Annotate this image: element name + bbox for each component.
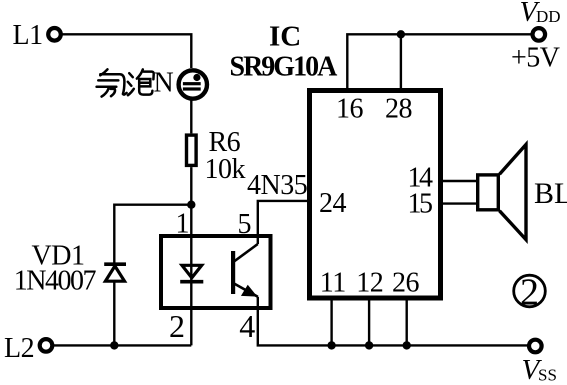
svg-text:L1: L1 [13,20,43,51]
svg-text:L2: L2 [4,333,34,364]
terminal Vdd [533,28,546,41]
svg-text:2: 2 [520,272,539,314]
svg-text:1: 1 [176,209,190,240]
wire pin 5 to IC pin 24 [258,201,308,244]
wire pin 4 to Vss rail and rail to terminal [258,297,529,346]
diode VD1 [104,264,126,281]
terminal L2 [40,339,53,352]
wire IC pin15 to speaker [441,202,479,204]
svg-text:IC: IC [269,20,301,52]
svg-text:BL: BL [534,177,567,210]
wire IC pin28 to Vdd rail [400,34,402,90]
svg-text:N: N [154,67,174,98]
svg-text:DD: DD [536,7,561,26]
LED inside optocoupler [180,265,203,281]
wire IC pin11 to Vss rail [330,298,332,345]
neon bulb N [179,70,207,98]
junction pin26 on Vss rail [403,341,411,349]
svg-text:24: 24 [319,188,347,219]
svg-text:SS: SS [538,366,557,385]
speaker BL [478,145,526,240]
svg-text:1N4007: 1N4007 [14,266,97,297]
circled figure number 2 [514,272,546,314]
svg-text:4N35: 4N35 [247,170,307,201]
IC box [310,91,441,299]
label 氖泡 (hand-drawn strokes) [97,69,154,96]
svg-text:15: 15 [408,189,433,220]
wire R6 through LED to L2 rail (pin1/pin2 path) [190,167,192,345]
junction pin11 on Vss rail [327,341,335,349]
wire node to VD1 [114,205,191,346]
wire IC pin26 to Vss rail [406,298,408,345]
optocoupler 4N35 box [161,236,271,308]
node junction R6/VD1 [187,201,195,209]
svg-text:28: 28 [385,94,412,125]
wire neon bulb to R6 [190,99,192,134]
phototransistor inside optocoupler [231,244,258,297]
svg-text:10k: 10k [205,154,246,185]
terminal L1 [48,28,61,41]
svg-text:SR9G10A: SR9G10A [230,52,339,83]
svg-text:12: 12 [356,268,383,299]
svg-text:26: 26 [392,268,420,299]
svg-text:4: 4 [239,308,255,344]
svg-text:2: 2 [169,308,185,344]
junction VD1 on L2 wire [110,341,118,349]
svg-text:+5V: +5V [511,43,560,74]
wire IC pin14 to speaker [441,180,479,182]
wire IC pin16 to Vdd rail and rail to terminal [347,34,532,90]
wire L2 to optocoupler pin 2 [53,344,192,346]
svg-text:11: 11 [320,268,346,299]
junction pin28 on Vdd rail [397,30,405,38]
wire IC pin12 to Vss rail [368,298,370,345]
junction pin12 on Vss rail [365,341,373,349]
svg-text:5: 5 [238,209,252,240]
resistor R6 [187,135,197,165]
terminal Vss [529,340,542,353]
wire L1 to neon bulb [61,34,191,68]
svg-text:16: 16 [336,94,364,125]
